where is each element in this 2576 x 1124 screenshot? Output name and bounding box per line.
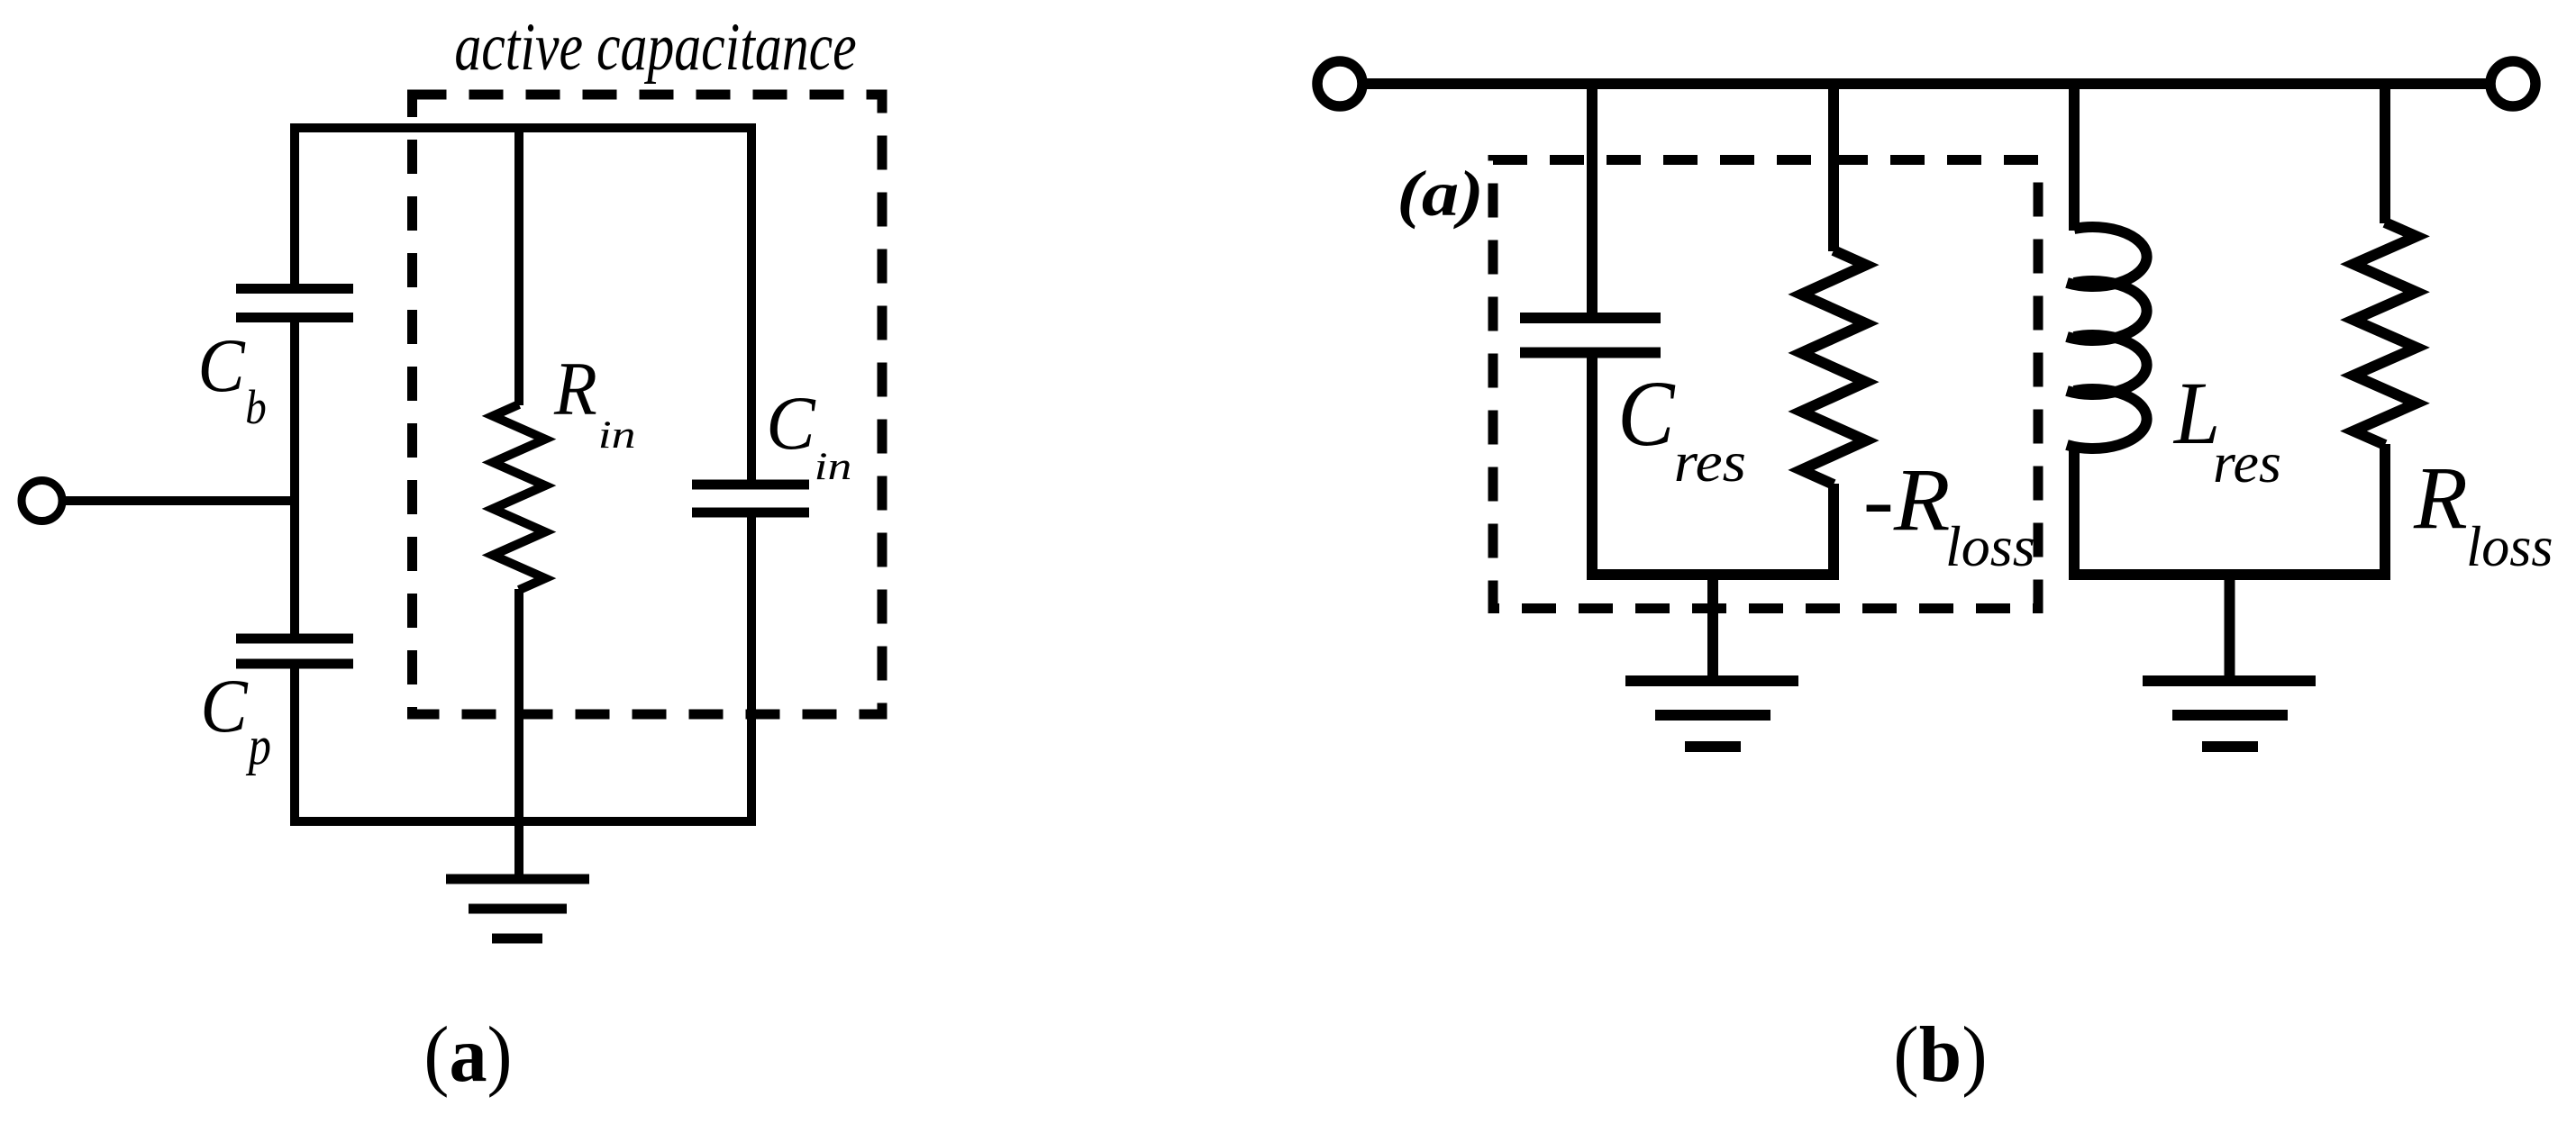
wire rail to capacitor Cres (1587, 84, 1597, 315)
svg-text:res: res (1674, 431, 1746, 494)
svg-text:res: res (2213, 431, 2281, 494)
wire rail to capacitor Cin (747, 123, 756, 483)
wire Lres to bottom connector (2069, 445, 2080, 580)
wire top rail (left circuit) (290, 123, 756, 132)
svg-text:(a): (a) (423, 1010, 512, 1098)
svg-text:active capacitance: active capacitance (454, 10, 856, 85)
svg-text:in: in (815, 445, 852, 488)
wire bottom connector Lres/Rloss (2069, 569, 2390, 580)
resistor -Rloss (1801, 250, 1866, 485)
wire Cb to Cp (through input node) (290, 320, 299, 637)
capacitor Cres (1520, 313, 1661, 323)
wire rail to resistor Rin (514, 123, 523, 405)
wire left branch: rail to capacitor Cb (290, 123, 299, 286)
svg-text:C: C (1617, 361, 1676, 466)
dashed box: (a) equivalent block (1493, 160, 2038, 609)
resistor Rin (493, 404, 545, 590)
wire top rail (right circuit) (1367, 78, 2486, 89)
wire rail to resistor Rloss (2380, 84, 2390, 223)
wire rail to inductor Lres (2069, 84, 2080, 231)
svg-text:C: C (197, 322, 246, 408)
capacitor Cin (692, 485, 809, 512)
ground GND2 (below Cres/-Rloss) (1625, 675, 1798, 686)
wire bottom connector Cres/-Rloss (1587, 569, 1839, 580)
svg-text:C: C (200, 663, 249, 748)
wire Cp to bottom rail (290, 666, 299, 826)
ground GND3 (below Lres/Rloss) (2143, 675, 2316, 686)
wire -Rloss to bottom connector (1828, 484, 1839, 580)
inductor Lres (2067, 227, 2147, 449)
svg-text:(a): (a) (1397, 158, 1483, 230)
wire Cres to bottom connector (1587, 355, 1597, 575)
terminal T2 (left port, right circuit) (1317, 61, 1362, 106)
svg-text:-R: -R (1863, 449, 1951, 549)
ground GND1 (left circuit) (446, 879, 589, 938)
svg-text:loss: loss (2466, 514, 2553, 578)
terminal T1 (input port, left circuit) (22, 481, 62, 521)
svg-text:R: R (2413, 449, 2468, 548)
wire rail to resistor -Rloss (1828, 84, 1839, 251)
svg-text:p: p (245, 716, 271, 775)
capacitor Cb (236, 289, 353, 318)
wire Rloss to bottom connector (2380, 444, 2390, 580)
svg-text:C: C (766, 382, 816, 467)
resistor Rloss (2353, 222, 2417, 445)
svg-text:loss: loss (1945, 514, 2035, 578)
svg-text:in: in (598, 413, 636, 457)
capacitor Cp (236, 639, 353, 664)
dashed box: active capacitance (413, 95, 883, 714)
wire bottom rail (left circuit) (290, 817, 756, 826)
wire input horizontal to node (62, 496, 296, 505)
svg-text:(b): (b) (1893, 1011, 1987, 1098)
wire Rin to bottom rail and ground (514, 589, 523, 880)
terminal T3 (right port, right circuit) (2490, 61, 2535, 106)
svg-text:b: b (245, 380, 266, 434)
svg-text:R: R (553, 346, 597, 431)
wire ground stem 1 (1707, 575, 1718, 682)
wire Cin to bottom rail (747, 514, 756, 821)
wire ground stem 2 (2225, 575, 2235, 682)
